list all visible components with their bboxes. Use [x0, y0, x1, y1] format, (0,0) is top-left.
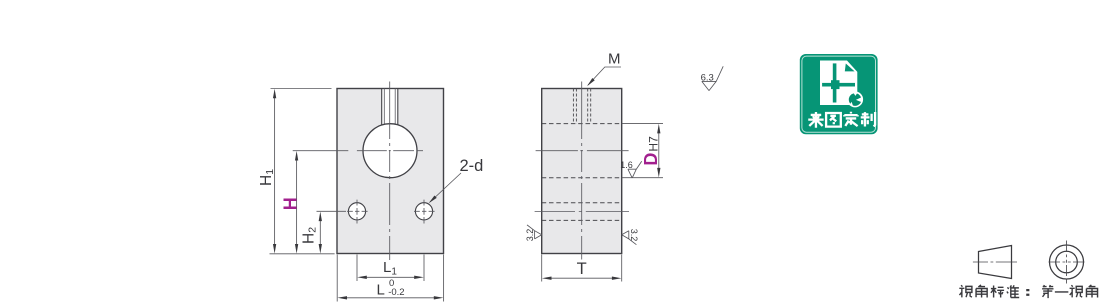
- svg-text:-0.2: -0.2: [388, 287, 404, 298]
- svg-text:L1: L1: [383, 259, 397, 278]
- svg-text:2-d: 2-d: [460, 157, 484, 175]
- svg-text:H1: H1: [258, 169, 276, 186]
- svg-text:H2: H2: [300, 227, 318, 244]
- svg-text:H7: H7: [646, 136, 660, 152]
- svg-text:D: D: [641, 153, 661, 166]
- svg-text:3.2: 3.2: [629, 229, 639, 242]
- svg-text:T: T: [577, 260, 587, 278]
- svg-text:L: L: [377, 282, 385, 299]
- svg-text:1.6: 1.6: [620, 160, 633, 170]
- svg-text:H: H: [280, 197, 300, 210]
- svg-text:3.2: 3.2: [525, 229, 535, 242]
- svg-text:M: M: [608, 51, 621, 68]
